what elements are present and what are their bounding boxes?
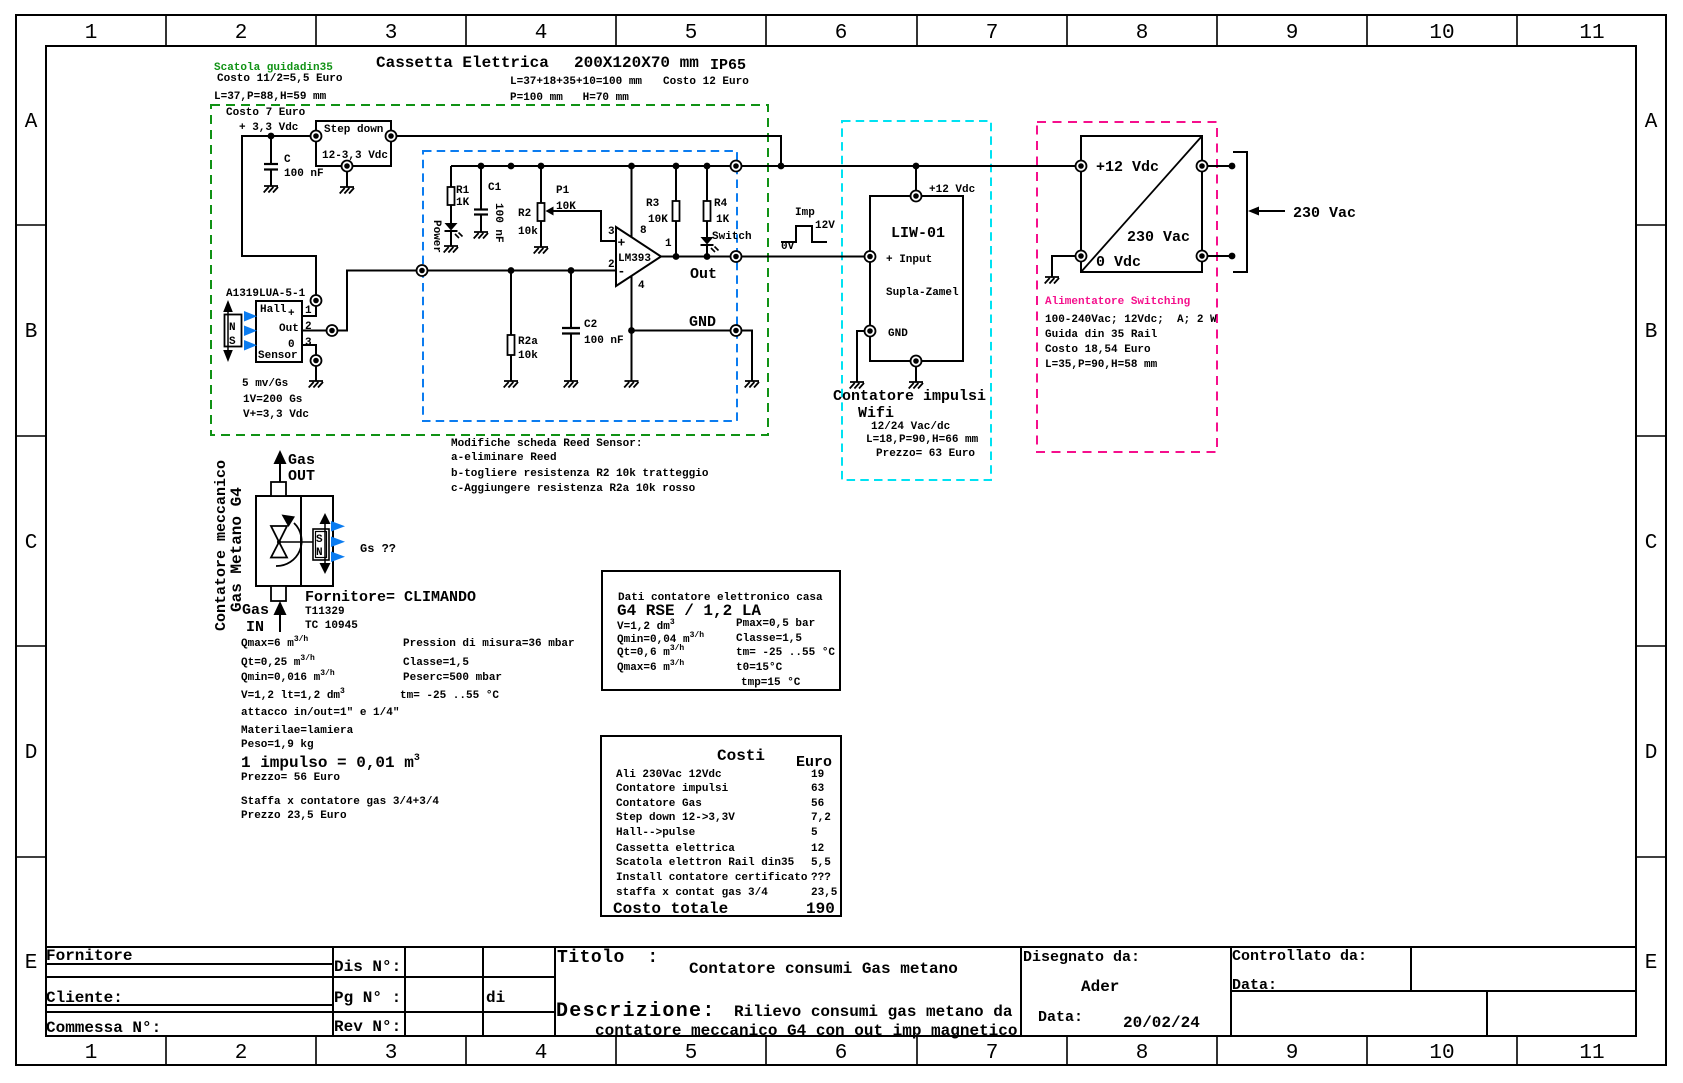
alimentatore PSU box: [1081, 136, 1202, 272]
ground right of GND terminal: [745, 381, 759, 388]
out line pin1: [661, 256, 730, 258]
wire pin8: [631, 166, 633, 237]
modifiche notes: [451, 438, 709, 495]
ground under pin4: [624, 381, 638, 388]
wire pin4 to gnd rail: [631, 276, 633, 381]
svg-text:TC 10945: TC 10945: [305, 620, 358, 632]
title block: [46, 947, 1636, 1040]
svg-text:LIW-01: LIW-01: [891, 225, 945, 242]
svg-text:100-240Vac; 12Vdc; A; 2 W: 100-240Vac; 12Vdc; A; 2 W: [1045, 314, 1217, 326]
svg-text:Data:: Data:: [1038, 1009, 1083, 1026]
gas meter specs column 2: [400, 638, 575, 702]
svg-text:Pg N° :: Pg N° :: [334, 989, 401, 1007]
dati col1: [617, 618, 704, 674]
svg-text:Gs ??: Gs ??: [360, 542, 396, 556]
svg-text:1: 1: [305, 305, 312, 317]
terminal Out: [731, 251, 742, 262]
svg-text:Disegnato da:: Disegnato da:: [1023, 949, 1140, 966]
scatola guidadin35 labels: [214, 62, 343, 134]
svg-text:9: 9: [1286, 1042, 1299, 1065]
junction rail mid: [508, 163, 515, 170]
gnd line: [632, 330, 731, 332]
svg-text:Rev N°:: Rev N°:: [334, 1018, 401, 1036]
svg-text:Gas Metano G4: Gas Metano G4: [228, 487, 246, 612]
svg-text:Pmax=0,5 bar: Pmax=0,5 bar: [736, 618, 815, 630]
svg-text:190: 190: [806, 900, 835, 918]
resistor R2a: [508, 271, 515, 382]
svg-text:+12 Vdc: +12 Vdc: [1096, 159, 1159, 176]
terminal LIW GND: [865, 326, 876, 337]
blue flux arrows to hall: [244, 311, 257, 351]
svg-text:tmp=15 °C: tmp=15 °C: [741, 677, 801, 689]
terminal GND: [731, 325, 742, 336]
ground under hall pin3: [309, 381, 323, 388]
svg-text:Step down: Step down: [324, 124, 383, 136]
svg-text:6: 6: [835, 22, 848, 45]
svg-text:E: E: [25, 952, 38, 975]
gas in arrow: [274, 601, 287, 632]
svg-text:T11329: T11329: [305, 606, 345, 618]
potentiometer wiper arrow: [546, 207, 617, 242]
gas meter top nozzle: [271, 482, 286, 496]
mains bracket: [1233, 152, 1247, 272]
junction rail-stepdown: [778, 163, 785, 170]
svg-text:N: N: [229, 322, 236, 334]
svg-text:23,5: 23,5: [811, 887, 838, 899]
PSU diagonal: [1081, 136, 1202, 272]
svg-text:1V=200 Gs: 1V=200 Gs: [243, 394, 302, 406]
svg-text:A1319LUA-5-1: A1319LUA-5-1: [226, 288, 306, 300]
svg-text:10: 10: [1429, 1042, 1454, 1065]
svg-text:Contatore impulsi: Contatore impulsi: [833, 388, 986, 405]
terminal LIW bottom: [911, 356, 922, 367]
capacitor C1: [474, 166, 488, 232]
ground under step-down: [340, 187, 354, 194]
impeller hourglass: [271, 526, 287, 558]
svg-text:attacco in/out=1" e 1/4": attacco in/out=1" e 1/4": [241, 707, 399, 719]
hall pin1 wire: [302, 306, 316, 316]
terminal hall pin3: [311, 355, 322, 366]
rotation arc arrow: [276, 515, 302, 567]
svg-text:R1: R1: [456, 185, 470, 197]
svg-text:Prezzo= 63 Euro: Prezzo= 63 Euro: [876, 448, 975, 460]
svg-text:63: 63: [811, 783, 825, 795]
svg-text:Descrizione:: Descrizione:: [556, 1000, 716, 1023]
svg-text:L=35,P=90,H=58 mm: L=35,P=90,H=58 mm: [1045, 359, 1158, 371]
svg-text:Sensor: Sensor: [258, 350, 298, 362]
ground under R2: [534, 247, 548, 254]
svg-text:Costo 7 Euro: Costo 7 Euro: [226, 107, 306, 119]
svg-text:2: 2: [235, 1042, 248, 1065]
hall pin2 wire: [302, 330, 326, 332]
svg-text:Classe=1,5: Classe=1,5: [736, 633, 802, 645]
svg-text:1 impulso = 0,01 m3: 1 impulso = 0,01 m3: [241, 753, 420, 772]
blue dashed box reed sensor board: [423, 151, 737, 421]
svg-text:S: S: [316, 534, 323, 546]
svg-text:Prezzo= 56 Euro: Prezzo= 56 Euro: [241, 772, 340, 784]
svg-text:Contatore consumi Gas metano: Contatore consumi Gas metano: [689, 960, 958, 978]
wire LIW bottom to ground: [915, 366, 917, 382]
svg-text:L=18,P=90,H=66 mm: L=18,P=90,H=66 mm: [866, 434, 979, 446]
svg-text:Ali 230Vac 12Vdc: Ali 230Vac 12Vdc: [616, 769, 722, 781]
svg-text:+ Input: + Input: [886, 254, 932, 266]
wire 3.3V from step-down left: [242, 136, 316, 295]
hall pin3 wire: [302, 345, 316, 355]
svg-text:Controllato da:: Controllato da:: [1232, 948, 1367, 965]
svg-text:V+=3,3 Vdc: V+=3,3 Vdc: [243, 409, 309, 421]
ground under C2: [564, 381, 578, 388]
svg-text:Classe=1,5: Classe=1,5: [403, 657, 469, 669]
svg-text:Contatore Gas: Contatore Gas: [616, 798, 702, 810]
junction rail R3: [673, 163, 680, 170]
wire 12V step-down right: [396, 136, 781, 166]
resistor R1: [448, 166, 455, 223]
costi box: [601, 736, 841, 916]
svg-text:N: N: [316, 547, 323, 559]
svg-text:9: 9: [1286, 22, 1299, 45]
svg-text:100 nF: 100 nF: [284, 168, 324, 180]
svg-text:200X120X70 mm: 200X120X70 mm: [574, 54, 699, 72]
terminal LIW +12: [911, 191, 922, 202]
junction rail R4: [704, 163, 711, 170]
svg-text:S: S: [229, 336, 236, 348]
svg-text:Gas: Gas: [242, 602, 269, 619]
svg-text:0 Vdc: 0 Vdc: [1096, 254, 1141, 271]
svg-text:C2: C2: [584, 319, 597, 331]
junction out R4: [704, 253, 711, 260]
svg-text:Imp: Imp: [795, 207, 815, 219]
svg-text:staffa x contat gas 3/4: staffa x contat gas 3/4: [616, 887, 768, 899]
svg-text:230 Vac: 230 Vac: [1293, 205, 1356, 222]
terminal PSU right bottom: [1197, 251, 1208, 262]
svg-text:R4: R4: [714, 198, 728, 210]
terminal PSU +12 left: [1076, 161, 1087, 172]
svg-text:Install contatore certificato: Install contatore certificato: [616, 872, 808, 884]
gas meter divider: [300, 496, 302, 586]
junction input R2a: [508, 267, 515, 274]
svg-text:t0=15°C: t0=15°C: [736, 662, 783, 674]
svg-text:B: B: [1645, 321, 1658, 344]
step down box: [316, 121, 391, 166]
junction gnd pin4: [628, 327, 635, 334]
LED switch: [701, 237, 719, 257]
ground under LED power: [444, 246, 458, 253]
resistor R3: [673, 166, 680, 257]
svg-text:Rilievo consumi gas metano da: Rilievo consumi gas metano da: [734, 1003, 1013, 1021]
ground under C1: [474, 232, 488, 239]
mains arrow: [1248, 207, 1285, 216]
hall sensor box: [256, 301, 302, 362]
svg-text:L=37,P=88,H=59 mm: L=37,P=88,H=59 mm: [214, 91, 327, 103]
terminal rail at blue box edge: [731, 161, 742, 172]
resistor R2 potentiometer body: [538, 166, 545, 247]
LIW-01 box: [870, 196, 963, 361]
dati col2: [736, 618, 835, 689]
input line pin2: [428, 270, 616, 272]
svg-text:Fornitore: Fornitore: [46, 947, 132, 965]
svg-text:8: 8: [1136, 22, 1149, 45]
gas meter bottom nozzle: [271, 586, 286, 601]
terminal blue box left: [417, 265, 428, 276]
terminal step-down bottom: [342, 161, 353, 172]
svg-text:D: D: [1645, 742, 1658, 765]
svg-text:1K: 1K: [716, 214, 730, 226]
junction out R3: [673, 253, 680, 260]
svg-text:7: 7: [986, 22, 999, 45]
terminal LIW input: [865, 251, 876, 262]
svg-text:IP65: IP65: [710, 57, 746, 74]
cyan dashed box contatore impulsi: [842, 121, 991, 480]
svg-text:c-Aggiungere resistenza R2a 10: c-Aggiungere resistenza R2a 10k rosso: [451, 483, 696, 495]
svg-text:IN: IN: [246, 619, 264, 636]
svg-text:Prezzo 23,5 Euro: Prezzo 23,5 Euro: [241, 810, 347, 822]
junction C tap: [268, 133, 275, 140]
meter blue flux arrows: [331, 521, 345, 562]
svg-text:Commessa N°:: Commessa N°:: [46, 1019, 161, 1037]
green dashed box scatola guidadin35: [211, 105, 768, 435]
gas out arrow: [274, 450, 287, 482]
svg-text:Contatore impulsi: Contatore impulsi: [616, 783, 729, 795]
svg-text:7: 7: [986, 1042, 999, 1065]
svg-text:GND: GND: [888, 328, 908, 340]
svg-text:GND: GND: [689, 314, 716, 331]
svg-text:12/24 Vac/dc: 12/24 Vac/dc: [871, 421, 950, 433]
ground LIW bottom: [909, 382, 923, 389]
meter magnet S N: [313, 513, 331, 574]
svg-text:C: C: [284, 154, 291, 166]
svg-text:E: E: [1645, 952, 1658, 975]
svg-text:4: 4: [638, 280, 645, 292]
terminal PSU right top: [1197, 161, 1208, 172]
svg-text:L=37+18+35+10=100 mm: L=37+18+35+10=100 mm: [510, 76, 642, 88]
svg-text:C: C: [25, 532, 38, 555]
svg-text:3: 3: [385, 22, 398, 45]
terminal hall pin2 out: [327, 325, 338, 336]
svg-text:contatore meccanico G4 con out: contatore meccanico G4 con out imp magne…: [595, 1022, 1017, 1040]
svg-text:19: 19: [811, 769, 824, 781]
svg-text:5: 5: [685, 1042, 698, 1065]
stub end dot bottom: [1229, 253, 1236, 260]
ground under C: [264, 186, 278, 193]
svg-text:10: 10: [1429, 22, 1454, 45]
svg-text:10K: 10K: [648, 214, 668, 226]
stub end dot top: [1229, 163, 1236, 170]
svg-text:10k: 10k: [518, 350, 538, 362]
svg-text:Out: Out: [690, 266, 717, 283]
svg-text:4: 4: [535, 22, 548, 45]
costi rows: [613, 769, 838, 918]
wire hall pin3 to ground: [315, 366, 317, 381]
svg-text:???: ???: [811, 872, 831, 884]
svg-text:B: B: [25, 321, 38, 344]
wire step-down bottom to ground: [346, 171, 348, 187]
svg-text:12-3,3 Vdc: 12-3,3 Vdc: [322, 150, 388, 162]
ground PSU: [1045, 277, 1059, 284]
svg-text:C1: C1: [488, 182, 502, 194]
svg-text:10k: 10k: [518, 226, 538, 238]
svg-text:Titolo :: Titolo :: [557, 948, 659, 968]
junction rail pin8: [628, 163, 635, 170]
supply rail 12V: [451, 165, 1081, 167]
svg-text:Alimentatore Switching: Alimentatore Switching: [1045, 296, 1190, 308]
svg-text:1: 1: [665, 238, 672, 250]
wire PSU right top stub: [1208, 165, 1232, 167]
svg-text:Guida din 35 Rail: Guida din 35 Rail: [1045, 329, 1158, 341]
capacitor C2: [562, 271, 580, 382]
junction rail C1: [478, 163, 485, 170]
svg-text:V=1,2 lt=1,2 dm3: V=1,2 lt=1,2 dm3: [241, 687, 345, 702]
svg-text:230 Vac: 230 Vac: [1127, 229, 1190, 246]
gas meter specs column: [241, 635, 439, 822]
svg-text:Supla-Zamel: Supla-Zamel: [886, 287, 959, 299]
svg-text:5: 5: [811, 827, 818, 839]
svg-text:Staffa x contatore gas 3/4+3/4: Staffa x contatore gas 3/4+3/4: [241, 796, 439, 808]
junction input C2: [568, 267, 575, 274]
wire out to LIW input: [742, 256, 864, 258]
svg-text:Out: Out: [279, 323, 299, 335]
svg-text:11: 11: [1579, 22, 1604, 45]
svg-text:56: 56: [811, 798, 824, 810]
svg-text:8: 8: [1136, 1042, 1149, 1065]
svg-text:b-togliere resistenza R2 10k t: b-togliere resistenza R2 10k tratteggio: [451, 468, 709, 480]
svg-text:1: 1: [85, 1042, 98, 1065]
ground LIW left: [850, 382, 864, 389]
svg-text:A: A: [25, 111, 38, 134]
svg-text:Peso=1,9 kg: Peso=1,9 kg: [241, 739, 314, 751]
svg-text:+12 Vdc: +12 Vdc: [929, 184, 975, 196]
svg-text:2: 2: [305, 321, 312, 333]
svg-text:tm= -25 ..55 °C: tm= -25 ..55 °C: [736, 647, 835, 659]
svg-text:3: 3: [385, 1042, 398, 1065]
svg-text:3: 3: [608, 226, 615, 238]
svg-text:C: C: [1645, 532, 1658, 555]
svg-text:R2: R2: [518, 208, 531, 220]
svg-text:100 nF: 100 nF: [492, 203, 504, 243]
svg-text:0V: 0V: [781, 241, 795, 253]
svg-text:di: di: [486, 989, 505, 1007]
svg-text:3: 3: [305, 337, 312, 349]
svg-text:tm= -25 ..55 °C: tm= -25 ..55 °C: [400, 690, 499, 702]
svg-text:+ 3,3 Vdc: + 3,3 Vdc: [239, 122, 298, 134]
svg-text:Materilae=lamiera: Materilae=lamiera: [241, 725, 354, 737]
wire rail to LIW top: [915, 166, 917, 190]
svg-text:-: -: [618, 264, 626, 279]
gas meter body: [256, 496, 333, 586]
svg-text:Gas: Gas: [288, 452, 315, 469]
svg-text:5,5: 5,5: [811, 857, 831, 869]
svg-text:Wifi: Wifi: [858, 405, 894, 422]
opamp LM393: [616, 227, 661, 286]
terminal step-down left: [311, 131, 322, 142]
junction rail R2: [538, 163, 545, 170]
svg-text:2: 2: [608, 259, 615, 271]
terminal PSU 0V left: [1076, 251, 1087, 262]
svg-text:V=1,2 dm3: V=1,2 dm3: [617, 618, 675, 633]
svg-text:5: 5: [685, 22, 698, 45]
svg-text:Step down 12->3,3V: Step down 12->3,3V: [616, 812, 735, 824]
svg-text:+: +: [288, 308, 295, 320]
svg-text:LM393: LM393: [618, 253, 651, 265]
svg-text:Scatola elettron Rail din35: Scatola elettron Rail din35: [616, 857, 795, 869]
svg-text:R2a: R2a: [518, 336, 538, 348]
ground under R2a: [504, 381, 518, 388]
svg-text:Peserc=500 mbar: Peserc=500 mbar: [403, 672, 502, 684]
svg-text:D: D: [25, 742, 38, 765]
pulse waveform symbol: [781, 226, 827, 242]
capacitor C 100nF: [264, 136, 278, 186]
svg-text:Costo 12 Euro: Costo 12 Euro: [663, 76, 749, 88]
svg-text:Switch: Switch: [712, 231, 752, 243]
svg-text:100 nF: 100 nF: [584, 335, 624, 347]
svg-text:Costo 11/2=5,5 Euro: Costo 11/2=5,5 Euro: [217, 73, 343, 85]
svg-text:12V: 12V: [815, 220, 835, 232]
svg-text:Costo totale: Costo totale: [613, 900, 728, 918]
svg-text:P=100 mm H=70 mm: P=100 mm H=70 mm: [510, 92, 629, 104]
svg-text:R3: R3: [646, 198, 660, 210]
wire PSU right bottom stub: [1208, 255, 1232, 257]
svg-text:Ader: Ader: [1081, 978, 1119, 996]
dati contatore box: [602, 571, 840, 690]
svg-text:A: A: [1645, 111, 1658, 134]
terminal step-down right: [386, 131, 397, 142]
LED power: [445, 223, 463, 246]
wire PSU 0V to ground: [1052, 256, 1075, 277]
svg-text:12: 12: [811, 843, 824, 855]
svg-text:OUT: OUT: [288, 468, 315, 485]
svg-text:Costi: Costi: [717, 747, 765, 765]
svg-text:4: 4: [535, 1042, 548, 1065]
terminal hall pin1: [311, 295, 322, 306]
svg-text:8: 8: [640, 225, 647, 237]
magnet symbol N S: [223, 300, 241, 362]
svg-text:11: 11: [1579, 1042, 1604, 1065]
svg-text:+: +: [618, 236, 626, 251]
wire LIW gnd to ground: [857, 331, 864, 382]
svg-text:Cliente:: Cliente:: [46, 989, 123, 1007]
svg-text:P1: P1: [556, 185, 570, 197]
svg-text:Hall-->pulse: Hall-->pulse: [616, 827, 696, 839]
junction rail-liw: [913, 163, 920, 170]
resistor R4: [704, 166, 711, 237]
svg-text:6: 6: [835, 1042, 848, 1065]
svg-text:Costo 18,54 Euro: Costo 18,54 Euro: [1045, 344, 1151, 356]
pink dashed box alimentatore: [1037, 122, 1217, 452]
wire gnd terminal to ground: [742, 331, 752, 382]
svg-text:Fornitore= CLIMANDO: Fornitore= CLIMANDO: [305, 589, 476, 606]
svg-text:20/02/24: 20/02/24: [1123, 1014, 1200, 1032]
svg-text:Modifiche scheda Reed Sensor:: Modifiche scheda Reed Sensor:: [451, 438, 642, 450]
svg-text:Cassetta Elettrica: Cassetta Elettrica: [376, 54, 549, 72]
svg-text:a-eliminare Reed: a-eliminare Reed: [451, 452, 557, 464]
svg-text:Pression di misura=36 mbar: Pression di misura=36 mbar: [403, 638, 575, 650]
link shaft: [279, 541, 313, 543]
svg-text:Power: Power: [430, 220, 442, 253]
svg-text:Dis N°:: Dis N°:: [334, 958, 401, 976]
svg-text:Cassetta elettrica: Cassetta elettrica: [616, 843, 735, 855]
svg-text:Data:: Data:: [1232, 977, 1277, 994]
svg-text:1K: 1K: [456, 197, 470, 209]
header: cassetta elettrica title: [376, 54, 749, 104]
svg-text:1: 1: [85, 22, 98, 45]
svg-text:2: 2: [235, 22, 248, 45]
svg-text:5 mv/Gs: 5 mv/Gs: [242, 378, 288, 390]
svg-text:7,2: 7,2: [811, 812, 831, 824]
wire hall out to comparator input: [338, 271, 416, 331]
svg-text:Hall: Hall: [260, 304, 287, 316]
